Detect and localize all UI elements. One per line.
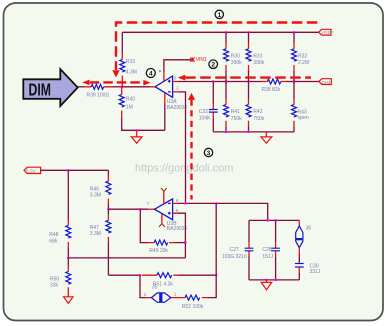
- svg-text:R32: R32: [298, 53, 307, 59]
- svg-text:331J: 331J: [310, 269, 321, 275]
- junction rail R42: [247, 131, 249, 133]
- svg-text:68k: 68k: [49, 238, 58, 244]
- svg-text:R38 82k: R38 82k: [262, 87, 281, 93]
- svg-text:R48: R48: [49, 232, 58, 238]
- capacitor C30: [295, 248, 321, 280]
- capacitor C28: [262, 220, 280, 280]
- circled 4: [146, 69, 155, 78]
- wire node E up to pin6 net: [215, 203, 217, 275]
- resistor R39: [85, 84, 111, 98]
- capacitor C27: [222, 220, 253, 280]
- junction bottom rail gnd: [265, 279, 267, 281]
- svg-text:2.2M: 2.2M: [298, 60, 309, 66]
- junction pin6/pin2 vertical: [184, 202, 186, 204]
- svg-text:1: 1: [217, 12, 221, 19]
- svg-text:3.3M: 3.3M: [90, 193, 101, 199]
- node junction R39/R33/R40/U3A out: [121, 86, 123, 88]
- svg-text:R52 100k: R52 100k: [182, 304, 204, 310]
- capacitor row wire: [249, 219, 299, 221]
- svg-text:3: 3: [207, 150, 211, 157]
- svg-text:open: open: [298, 115, 309, 121]
- svg-text:5.0V: 5.0V: [26, 169, 37, 175]
- svg-text:R33: R33: [126, 59, 135, 65]
- wire R39 to node: [111, 86, 122, 88]
- junction at ground stem: [136, 129, 138, 131]
- op-amp U3A: [150, 70, 187, 111]
- svg-text:2: 2: [144, 292, 147, 297]
- wire pin5 net down to node D rail: [178, 213, 186, 258]
- svg-text:3.3M: 3.3M: [90, 231, 101, 237]
- wire node C down to J5: [140, 275, 147, 297]
- resistor R49 feedback: [140, 209, 185, 254]
- dashed path 1: [112, 23, 317, 78]
- dashed path 4: [82, 80, 150, 86]
- junction cap row C28: [275, 219, 277, 221]
- svg-text:R49 33k: R49 33k: [149, 248, 168, 254]
- no-connect mark below U3B: [159, 224, 165, 227]
- svg-text:103G 3216: 103G 3216: [222, 254, 247, 260]
- resistor R32: [292, 32, 310, 81]
- resistor R47: [90, 209, 111, 275]
- svg-text:750k: 750k: [231, 116, 242, 122]
- svg-text:4: 4: [149, 71, 153, 78]
- wire R40 bottom to ground rail: [122, 119, 165, 131]
- svg-text:R50: R50: [50, 276, 59, 282]
- svg-text:R46: R46: [90, 186, 99, 192]
- wire DIM arrow tip to R39: [78, 86, 86, 88]
- wire U3A output to node: [122, 86, 151, 88]
- dashed path 2: [178, 75, 311, 81]
- svg-text:3: 3: [174, 75, 177, 80]
- svg-text:R41: R41: [231, 109, 240, 115]
- junction pin6/R51 vertical: [215, 202, 217, 204]
- resistor R30: [224, 32, 243, 81]
- dashed path 3: [188, 93, 195, 200]
- off-page connector VREF: [319, 29, 334, 36]
- svg-text:33k: 33k: [50, 283, 59, 289]
- junction R49 loop: [139, 208, 141, 210]
- junction rail R41: [225, 131, 227, 133]
- svg-text:1: 1: [174, 291, 177, 296]
- svg-text:6: 6: [176, 198, 179, 203]
- no-connect mark above U3B: [161, 188, 167, 191]
- svg-text:7: 7: [147, 201, 150, 206]
- resistor R38: [262, 79, 287, 93]
- svg-text:BA2903F: BA2903F: [167, 226, 188, 232]
- svg-text:750k: 750k: [253, 116, 264, 122]
- wire U3A pin2 down to lower stage: [178, 92, 186, 203]
- svg-text:R31: R31: [253, 53, 262, 59]
- svg-text:390k: 390k: [231, 60, 242, 66]
- resistor R43: [292, 82, 309, 132]
- junction pin3 net R32/R43: [293, 80, 295, 82]
- resistor R52: [176, 275, 216, 310]
- wire top rail from R33 corner to VREF: [122, 31, 318, 33]
- svg-text:VIN1: VIN1: [196, 57, 207, 63]
- component J5: [144, 284, 177, 302]
- svg-text:2: 2: [211, 62, 215, 69]
- ground under divider rail: [261, 132, 272, 143]
- svg-text:DIM: DIM: [322, 80, 331, 86]
- svg-text:151J: 151J: [262, 254, 273, 260]
- bottom rail of divider: [213, 131, 294, 133]
- VIN1 power net to U3A pin8: [164, 57, 207, 72]
- bottom rail caps: [249, 279, 299, 281]
- wire node D to pin5 vertical: [68, 257, 185, 259]
- svg-text:VREF: VREF: [321, 30, 334, 36]
- junction pin3 net C22: [212, 80, 214, 82]
- wire pin3 net: [178, 81, 319, 83]
- junction pin3 net R30/R41: [225, 80, 227, 82]
- svg-text:C22: C22: [199, 109, 208, 115]
- wire 5.0V to node: [41, 169, 109, 171]
- capacitor C22: [199, 82, 218, 132]
- circled 3: [204, 148, 212, 157]
- svg-text:1M: 1M: [126, 105, 133, 111]
- svg-text:R30: R30: [231, 53, 240, 59]
- svg-text:2: 2: [176, 85, 179, 90]
- junction node B (R46/R47/U3B out): [107, 208, 109, 210]
- ground under caps: [261, 280, 271, 290]
- junction R49 right: [184, 242, 186, 244]
- svg-text:390k: 390k: [253, 60, 264, 66]
- junction node D: [67, 257, 69, 259]
- resistor R51: [142, 273, 216, 288]
- resistor R41: [224, 82, 243, 132]
- resistor R42: [246, 82, 265, 132]
- junction pin3 net R31/R42: [247, 80, 249, 82]
- circled 1: [215, 10, 223, 19]
- junction top rail R31: [247, 31, 249, 33]
- svg-text:J6: J6: [306, 225, 312, 231]
- resistor R46: [90, 170, 111, 209]
- svg-text:C27: C27: [230, 247, 239, 253]
- wire R47 bottom to node C: [108, 274, 140, 276]
- svg-text:C28: C28: [262, 247, 271, 253]
- wire U3A pin4 (V-) to ground rail: [164, 104, 166, 130]
- junction top rail R32: [293, 31, 295, 33]
- junction cap row pin6 drop: [267, 219, 269, 221]
- svg-text:5: 5: [176, 208, 179, 213]
- wire node B to U3B output: [108, 208, 148, 210]
- junction top rail R30: [225, 31, 227, 33]
- ground under R50: [64, 297, 73, 304]
- svg-text:4.3M: 4.3M: [126, 69, 137, 75]
- svg-text:J5: J5: [152, 284, 158, 290]
- resistor R33: [120, 32, 137, 87]
- op-amp U3B: [147, 191, 188, 231]
- resistor R40: [119, 87, 135, 119]
- resistor R50: [50, 258, 71, 297]
- component J6: [295, 220, 311, 247]
- svg-text:R42: R42: [253, 109, 262, 115]
- off-page connector 5.0V: [24, 167, 41, 174]
- svg-text:BA2903F: BA2903F: [167, 105, 188, 111]
- svg-text:104K: 104K: [199, 116, 211, 122]
- junction bottom rail C28: [275, 279, 277, 281]
- off-page connector DIM: [319, 79, 332, 86]
- resistor R48: [49, 170, 71, 258]
- svg-text:https://gongdoli.com: https://gongdoli.com: [135, 163, 233, 175]
- svg-text:R39 100Ω: R39 100Ω: [87, 92, 110, 98]
- resistor R31: [246, 32, 265, 81]
- DIM input block arrow: [23, 69, 77, 106]
- svg-text:R47: R47: [90, 225, 99, 231]
- circled 2: [209, 60, 218, 69]
- svg-text:DIM: DIM: [29, 81, 51, 101]
- svg-text:R40: R40: [126, 97, 135, 103]
- junction node E: [215, 274, 217, 276]
- junction node C: [139, 274, 141, 276]
- wire U3B pin6 net: [178, 203, 268, 220]
- junction 5.0V node: [67, 169, 69, 171]
- ground under R40: [131, 130, 142, 143]
